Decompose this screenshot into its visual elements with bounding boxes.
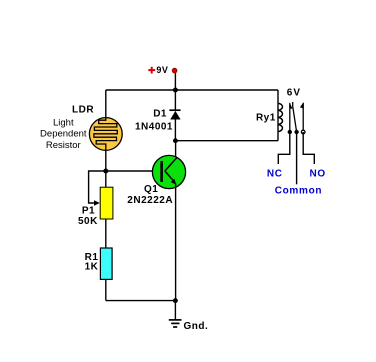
label: D1 1N4001 [135,109,173,133]
wire: top +9V rail [106,89,278,91]
wire: bottom rail [106,300,176,302]
label: Q1 2N2222A [127,184,173,206]
svg-text:Dependent: Dependent [40,129,87,140]
svg-text:NC: NC [267,169,283,180]
svg-text:P1: P1 [82,205,95,216]
svg-text:9V: 9V [156,65,168,75]
Q1 base bar [160,161,163,182]
svg-text:Ry1: Ry1 [256,113,276,124]
svg-text:Gnd.: Gnd. [184,321,209,332]
wire: P1 to R1 [105,219,107,248]
relay NO fixed contact [300,102,304,132]
wire: LDR bottom lead [105,150,107,171]
svg-text:1N4001: 1N4001 [135,121,173,132]
wire: +9V stem [174,72,176,90]
svg-text:LDR: LDR [72,104,94,115]
node: +9V terminal (red dot) [172,68,177,73]
Q1 emitter arrowhead [171,179,177,185]
svg-text:1K: 1K [85,262,99,273]
wire: junction to P1 top [105,171,107,188]
node: NC terminal dot [288,130,292,134]
svg-text:D1: D1 [153,109,167,120]
wire: coil bottom return [175,140,278,142]
svg-text:50K: 50K [78,216,98,227]
node: common terminal dot [294,130,298,134]
diode D1 [169,110,180,119]
Q1 collector stroke [165,157,177,171]
node: junction diode bottom / collector [173,138,178,143]
svg-text:Resistor: Resistor [46,140,81,151]
wire: ground stem [174,301,176,320]
relay coil Ry1 [278,90,283,141]
svg-text:6V: 6V [287,87,301,98]
wire: emitter lead [175,184,177,301]
ground symbol [169,320,182,327]
transistor Q1 body [152,155,185,188]
P1 wiper arrowhead [94,200,100,206]
wire: common drop [296,132,298,184]
potentiometer P1 body [100,187,113,219]
label: P1 50K [78,205,98,227]
wire: NO drop [303,132,314,164]
wire: diode bottom lead [174,120,176,141]
LDR serpentine track [94,118,117,151]
svg-text:NO: NO [310,169,326,180]
svg-text:Light: Light [53,118,74,129]
wire: base wire to Q1 [106,170,165,172]
svg-text:Q1: Q1 [144,184,158,195]
relay NC fixed contact [289,102,292,132]
wire: collector lead [175,141,177,157]
relay armature (common pole) [293,102,297,132]
label: +9V supply [148,65,168,75]
node: ground junction [173,298,178,303]
label: Light Dependent Resistor [40,118,87,151]
wire: LDR top lead [105,90,107,118]
LDR body [89,118,122,151]
wire: P1 wiper link [89,171,106,203]
wire: NC drop [278,132,290,164]
node: base junction [103,169,108,174]
resistor R1 body [100,248,112,279]
node: NO terminal (open circle) [301,130,305,134]
svg-text:2N2222A: 2N2222A [127,195,173,206]
node: junction top rail / diode [173,88,178,93]
svg-text:Common: Common [275,185,323,196]
wire: R1 to bottom rail [105,279,107,300]
Q1 emitter stroke [165,171,174,181]
wire: diode top lead [174,90,176,110]
label: R1 1K [85,252,99,273]
